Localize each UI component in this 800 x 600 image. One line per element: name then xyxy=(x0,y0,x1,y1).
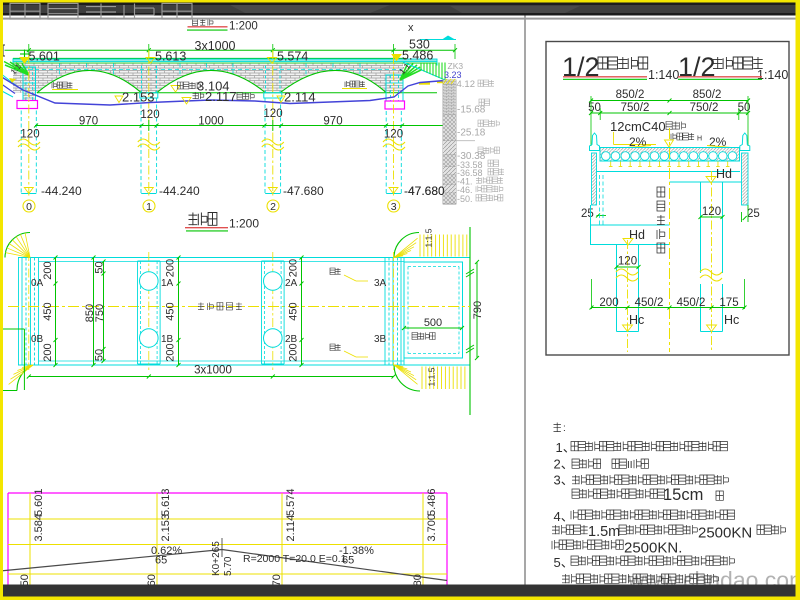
svg-text:1/2: 1/2 xyxy=(678,52,716,82)
pier 1 column and pile xyxy=(140,93,158,98)
right parapet xyxy=(740,133,750,151)
svg-text:1:200: 1:200 xyxy=(229,217,259,231)
approach slab right xyxy=(404,262,463,358)
note 4 line 2 xyxy=(552,525,559,534)
svg-text:1:200: 1:200 xyxy=(229,21,258,33)
svg-text:II: II xyxy=(627,460,633,471)
svg-text:850/2: 850/2 xyxy=(616,89,645,101)
svg-text:790: 790 xyxy=(472,301,484,319)
svg-text:1、: 1、 xyxy=(556,440,576,455)
svg-text:2.153: 2.153 xyxy=(160,514,172,542)
svg-text:1: 1 xyxy=(146,201,152,213)
abutment pile xyxy=(616,245,618,332)
profile grid lines xyxy=(8,518,447,520)
pier break symbol xyxy=(700,275,722,281)
girder soffit label right xyxy=(345,81,350,87)
left parapet xyxy=(590,133,600,151)
svg-text:2.114: 2.114 xyxy=(285,515,297,542)
ground label 现状2.117 地面线 xyxy=(182,98,191,105)
yellow frame xyxy=(0,0,800,3)
svg-text:120: 120 xyxy=(20,129,39,141)
svg-text:1000: 1000 xyxy=(198,116,224,128)
svg-text:50: 50 xyxy=(94,261,106,273)
svg-text:200: 200 xyxy=(165,259,177,277)
dimension 530 right xyxy=(394,49,456,51)
plan pier 1 pile B circle xyxy=(140,329,159,348)
svg-text:5.486: 5.486 xyxy=(402,49,433,63)
plan deck outline xyxy=(18,257,470,259)
divider line xyxy=(524,16,526,585)
plan view title 平面图 xyxy=(189,213,198,226)
plan bottom dim 3x1000 xyxy=(29,376,394,378)
note 4 line 3 xyxy=(552,540,559,549)
svg-text:5.601: 5.601 xyxy=(33,488,45,516)
svg-text:2.153: 2.153 xyxy=(122,90,155,105)
detail panel frame xyxy=(546,42,789,356)
plan axis 1 centerline xyxy=(148,252,150,370)
borehole column xyxy=(443,80,456,204)
plan transverse dims 200 450 200 at axis 0 xyxy=(55,258,57,366)
svg-text:120: 120 xyxy=(384,129,403,141)
svg-text:5.601: 5.601 xyxy=(29,50,60,64)
abutment 0 footing xyxy=(17,101,38,109)
plan transverse dims at axis 2 xyxy=(301,258,303,366)
plan pier 2 pile B circle xyxy=(264,329,283,348)
springing line xyxy=(37,92,437,94)
svg-text:3: 3 xyxy=(391,201,397,213)
bottom black bar xyxy=(0,585,800,597)
axis bubble 3 xyxy=(388,200,400,212)
axis bubble 2 xyxy=(267,200,279,212)
svg-text:1:140: 1:140 xyxy=(648,68,679,82)
plan pier 2 footprint xyxy=(261,261,263,364)
top dimension 3x1000 xyxy=(5,49,394,51)
abutment wall dashed lines xyxy=(599,175,601,225)
svg-text:50: 50 xyxy=(588,102,601,114)
elevation view title 立面图 xyxy=(193,19,198,26)
fill slope hatch top-right xyxy=(419,235,421,257)
span dimension line 970-1000-970 xyxy=(35,125,455,127)
bottom dims 200 450/2 450/2 175 xyxy=(592,307,745,309)
svg-text:750/2: 750/2 xyxy=(690,102,719,114)
spandrel post dashed lines xyxy=(59,63,61,92)
abutment pile break symbol xyxy=(616,275,638,281)
svg-text:R=2000 T=20.0 E=0.1: R=2000 T=20.0 E=0.1 xyxy=(243,553,347,565)
svg-text:5.613: 5.613 xyxy=(160,488,172,516)
abutment 3 pile xyxy=(385,111,387,194)
section dim 850/2 xyxy=(591,100,748,102)
svg-text:120: 120 xyxy=(263,108,282,120)
svg-text:970: 970 xyxy=(79,116,98,128)
plan axis 2 centerline xyxy=(272,252,274,370)
svg-text:450: 450 xyxy=(165,302,177,320)
svg-text:1:140: 1:140 xyxy=(757,68,788,82)
girder soffit label left xyxy=(52,82,57,88)
svg-text:H: H xyxy=(697,136,702,143)
svg-text:-25.18: -25.18 xyxy=(457,128,486,139)
svg-text:5.574: 5.574 xyxy=(277,50,308,64)
plan axis 3 centerline xyxy=(393,252,395,370)
bearing ticks under slab xyxy=(610,162,612,167)
svg-text:450: 450 xyxy=(42,302,54,320)
pier side edge wall xyxy=(742,153,749,205)
section dim 50 750/2 750/2 50 xyxy=(591,112,748,114)
svg-text:2、: 2、 xyxy=(554,457,574,472)
svg-text:2A: 2A xyxy=(285,278,298,289)
svg-text:450/2: 450/2 xyxy=(677,297,706,309)
abutment back wall xyxy=(592,153,597,205)
ground elev 2.114 xyxy=(277,96,285,103)
profile station 260 xyxy=(156,493,158,585)
svg-text:-47.680: -47.680 xyxy=(404,184,445,198)
svg-text:x: x xyxy=(408,22,414,34)
svg-text:200: 200 xyxy=(42,261,54,279)
plan axis 0 centerline xyxy=(28,252,30,370)
plan pier 1 pile A circle xyxy=(140,272,159,291)
dim 120 abutment pile xyxy=(617,266,639,268)
pier pile xyxy=(700,284,702,332)
wing wall bottom-left xyxy=(17,365,33,391)
svg-text:0: 0 xyxy=(26,201,32,213)
svg-text:3.700: 3.700 xyxy=(426,514,438,542)
svg-text:3B: 3B xyxy=(374,334,387,345)
misc plan leaders xyxy=(330,268,335,275)
svg-text:3、: 3、 xyxy=(554,473,574,488)
borehole top hatch xyxy=(443,79,455,84)
note 3 line 2 xyxy=(572,489,579,498)
toe marks xyxy=(419,83,430,85)
profile station 280 xyxy=(422,493,424,585)
plan width dims 50 850 750 50 xyxy=(93,258,95,366)
svg-text:750/2: 750/2 xyxy=(621,102,650,114)
top black bar xyxy=(0,3,800,16)
pier 1 centerline xyxy=(148,50,150,196)
dim 120 pier xyxy=(701,216,723,218)
svg-text:25: 25 xyxy=(581,208,594,220)
section centerline xyxy=(669,128,671,352)
svg-text:500: 500 xyxy=(424,317,442,329)
elevation marker 5.601 at abutment 0 xyxy=(24,50,26,59)
profile station 250 xyxy=(29,493,31,585)
route centerline label 线路中心线 xyxy=(198,303,204,311)
svg-text:5.70: 5.70 xyxy=(223,556,234,576)
svg-text:120: 120 xyxy=(140,109,159,121)
dim 500 approach slab xyxy=(404,327,462,329)
svg-text:450: 450 xyxy=(288,302,300,320)
road edge right xyxy=(469,227,471,415)
elevation marker 5.613 at pier 1 xyxy=(146,58,155,64)
wing wall bottom-right xyxy=(394,365,420,391)
svg-text::: : xyxy=(563,423,566,434)
svg-text:2500KN: 2500KN xyxy=(698,525,752,542)
svg-text:1:1.5: 1:1.5 xyxy=(424,228,434,247)
svg-text:3x1000: 3x1000 xyxy=(195,39,236,53)
svg-text:25: 25 xyxy=(747,208,760,220)
wing wall top-right xyxy=(394,233,419,258)
left edge clipped label xyxy=(1,45,5,56)
svg-text:120: 120 xyxy=(702,206,721,218)
svg-text:2500KN.: 2500KN. xyxy=(624,540,682,557)
abutment pile centerline xyxy=(627,240,629,352)
svg-text:970: 970 xyxy=(323,116,342,128)
svg-text:50: 50 xyxy=(738,102,751,114)
pier 1 pile toe marker xyxy=(144,188,153,194)
svg-text:2.117: 2.117 xyxy=(205,89,237,104)
svg-text:450/2: 450/2 xyxy=(635,297,664,309)
bearing line xyxy=(597,171,741,173)
svg-text:200: 200 xyxy=(288,259,300,277)
approach road edge left xyxy=(0,328,24,330)
svg-text:175: 175 xyxy=(719,297,738,309)
deck slab band xyxy=(13,57,406,59)
svg-text:120: 120 xyxy=(618,256,637,268)
abutment 0 body xyxy=(23,67,36,101)
svg-text:-44.240: -44.240 xyxy=(159,184,200,198)
svg-text:65: 65 xyxy=(155,555,167,567)
pier 1 shaft through spandrel xyxy=(141,66,143,93)
svg-text:3.584: 3.584 xyxy=(33,514,45,542)
right wing slope cone xyxy=(400,63,422,80)
svg-text:3A: 3A xyxy=(374,278,387,289)
svg-text:K0+265: K0+265 xyxy=(211,541,222,576)
svg-text:5.486: 5.486 xyxy=(426,488,438,516)
arch span 2 xyxy=(157,70,266,92)
svg-text:-50.: -50. xyxy=(457,194,473,204)
arch span 1 xyxy=(37,70,142,92)
elevation marker 5.486 at abutment 3 xyxy=(392,55,401,61)
pier 2 shaft through spandrel xyxy=(265,66,267,93)
svg-text:5.613: 5.613 xyxy=(155,50,186,64)
svg-text:Hc: Hc xyxy=(724,313,739,327)
spandrel hidden lines xyxy=(14,69,402,71)
pier centerline xyxy=(711,171,713,352)
left abutment plan walls xyxy=(18,258,20,366)
plan pier 2 pile A circle xyxy=(264,272,283,291)
svg-text:15cm: 15cm xyxy=(663,486,703,504)
axis bubble 1 xyxy=(143,200,155,212)
svg-text:50: 50 xyxy=(94,349,106,361)
deck slab with void circles xyxy=(600,148,740,162)
svg-text:-44.240: -44.240 xyxy=(41,184,82,198)
spandrel brick masonry xyxy=(13,63,403,92)
svg-text:750: 750 xyxy=(94,304,106,322)
svg-text:200: 200 xyxy=(288,343,300,361)
svg-text:4.12: 4.12 xyxy=(457,79,476,90)
pier 1 pile break symbol xyxy=(138,144,160,150)
approach slope lines xyxy=(0,73,22,90)
pier column xyxy=(700,182,702,273)
dim 790 xyxy=(476,262,478,358)
svg-text:200: 200 xyxy=(165,343,177,361)
fill slope hatch bottom-right xyxy=(421,367,423,390)
top gray rule xyxy=(0,18,800,20)
note 5 line 2 xyxy=(562,574,569,583)
abutment 3 footing xyxy=(385,101,405,109)
leader lines xyxy=(613,132,615,145)
pier 2 pile toe marker xyxy=(268,188,277,194)
svg-text:12cmC40: 12cmC40 xyxy=(610,119,666,134)
svg-text:2.114: 2.114 xyxy=(284,90,316,105)
plan transverse dims at axis 1 xyxy=(178,258,180,366)
plan pier 1 footprint xyxy=(137,261,139,364)
axis bubble 0 xyxy=(23,200,35,212)
route centerline xyxy=(8,306,470,308)
pier 2 centerline xyxy=(272,50,274,196)
bridge centerline label vertical xyxy=(657,187,665,197)
arch span 3 xyxy=(280,70,386,92)
water level label 设计水位3.104 xyxy=(171,86,180,93)
notes header 注 xyxy=(554,423,561,433)
svg-text:-47.680: -47.680 xyxy=(283,184,324,198)
svg-text:1/2: 1/2 xyxy=(562,52,600,82)
svg-text:850/2: 850/2 xyxy=(693,89,722,101)
svg-text:3x1000: 3x1000 xyxy=(194,365,232,377)
abutment cap xyxy=(591,224,670,226)
profile station 270 xyxy=(281,493,283,585)
svg-text:1:1.5: 1:1.5 xyxy=(427,367,437,386)
wing wall top-left xyxy=(5,233,30,258)
profile frame xyxy=(8,492,447,494)
svg-text:1A: 1A xyxy=(161,278,174,289)
watermark top-left 中国道桥网 xyxy=(10,4,40,20)
approach line left xyxy=(0,90,13,97)
right abutment plan walls xyxy=(384,258,386,366)
elevation marker 5.574 at pier 2 xyxy=(268,58,277,64)
svg-text:5.574: 5.574 xyxy=(285,488,297,516)
pier 2 pile break symbol xyxy=(262,144,284,150)
svg-text:2: 2 xyxy=(270,201,276,213)
profile grade line xyxy=(0,550,447,581)
pier 2 column and pile xyxy=(264,93,282,98)
abutment 0 slope cone xyxy=(4,62,29,76)
svg-text:Hd: Hd xyxy=(716,167,732,181)
ground line xyxy=(0,76,445,105)
abutment 0 pile xyxy=(20,111,22,194)
svg-text:1.5m: 1.5m xyxy=(588,524,620,540)
abutment 3 body xyxy=(386,75,403,101)
pier cap line xyxy=(670,181,742,183)
svg-text:200: 200 xyxy=(42,343,54,361)
svg-text:200: 200 xyxy=(599,297,618,309)
svg-text:-15.68: -15.68 xyxy=(457,105,486,116)
ground elev 2.153 xyxy=(115,96,123,103)
